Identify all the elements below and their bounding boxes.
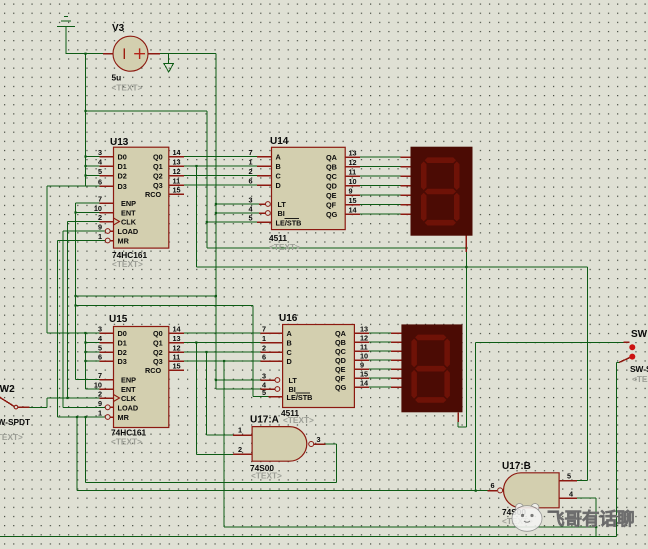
svg-text:10: 10 [94,204,102,213]
svg-text:13: 13 [173,334,181,343]
svg-text:6: 6 [262,353,266,362]
svg-text:D2: D2 [118,348,127,357]
svg-text:LT: LT [289,376,298,385]
svg-text:2: 2 [238,445,242,454]
svg-text:3: 3 [262,372,266,381]
wire vertical x=75.5 [75,203,77,380]
wire display1 common vertical [458,252,466,427]
svg-text:Q3: Q3 [153,357,163,366]
svg-text:2: 2 [262,344,266,353]
svg-text:QD: QD [335,356,346,365]
svg-text:10: 10 [94,381,102,390]
svg-text:Q1: Q1 [153,339,163,348]
svg-text:QE: QE [326,191,337,200]
svg-text:QA: QA [335,329,347,338]
U17A pin numbers [238,426,321,454]
ground [57,17,75,55]
wire SW throw stub [616,362,619,364]
svg-text:14: 14 [173,148,182,157]
svg-text:2: 2 [98,213,102,222]
wire U13.D3 [47,185,100,187]
wire vertical x=587.5 to U17B.5 [587,267,589,481]
wire U13.D1 [86,165,100,167]
svg-text:9: 9 [349,187,353,196]
wires U15.Q to U16 [184,333,261,361]
svg-text:SW: SW [631,329,648,340]
wire U13.ENT [76,212,100,214]
svg-text:V3: V3 [112,23,125,34]
wire U16.LE [253,396,268,398]
svg-text:<TEXT>: <TEXT> [632,374,648,384]
U16 right pin stubs [354,333,369,387]
wire U14.BI to VCC [216,212,259,214]
U17A input stubs [233,435,252,454]
wires U14 to display1 [360,157,400,214]
svg-text:U13: U13 [110,137,129,148]
svg-text:U15: U15 [109,314,128,325]
svg-text:7: 7 [98,195,102,204]
wire V3 right [160,53,216,55]
U14 pin numbers [248,148,357,223]
wire vertical x=253.2 [252,306,254,397]
U16 pin numbers [262,325,369,398]
svg-text:9: 9 [98,399,102,408]
svg-text:LOAD: LOAD [118,227,139,236]
wire U13.Q3 to U14.D [184,184,257,186]
U13 left pin stubs [100,157,114,241]
svg-text:CLK: CLK [121,218,137,227]
wire U14.LT to VCC [216,203,259,205]
wire U17B output [77,490,488,492]
svg-text:LE/STB: LE/STB [287,393,313,402]
svg-text:LE/STB: LE/STB [276,219,302,228]
svg-text:B: B [287,339,292,348]
svg-text:3: 3 [317,435,321,444]
U16 overline STB [296,392,311,394]
svg-text:D1: D1 [118,339,127,348]
wire U15.D1 [85,342,99,344]
svg-text:QA: QA [326,153,338,162]
svg-text:15: 15 [173,362,181,371]
svg-text:Q2: Q2 [153,348,163,357]
SW right throw diagonal [619,358,630,363]
svg-text:D: D [276,181,281,190]
svg-text:A: A [276,153,282,162]
svg-text:QB: QB [326,163,337,172]
svg-text:7: 7 [262,325,266,334]
wire H1 ENP to VCC [76,295,216,297]
svg-text:RCO: RCO [145,190,162,199]
svg-text:1: 1 [98,409,102,418]
svg-text:13: 13 [360,325,368,334]
svg-text:QC: QC [326,172,338,181]
svg-text:3: 3 [98,325,102,334]
U16 BI bubble [275,387,280,392]
svg-text:U17:B: U17:B [502,461,531,472]
svg-text:QC: QC [335,347,347,356]
wire SW2 to CLK [30,398,100,407]
U13 body [114,147,169,248]
wire H4 [197,266,588,268]
U14 BI bubble [266,211,271,216]
svg-text:Q0: Q0 [153,153,163,162]
wire U13.LOAD [63,230,105,232]
svg-text:5: 5 [98,167,102,176]
svg-text:9: 9 [360,361,364,370]
svg-text:D3: D3 [118,357,127,366]
wires U16 to display2 [369,333,391,387]
svg-text:QG: QG [335,383,347,392]
U15 MR bubble [105,415,110,420]
wire U17B input5 [577,480,587,482]
SW right contacts [629,344,635,350]
svg-text:14: 14 [360,379,369,388]
svg-text:2: 2 [98,390,102,399]
display2 common stub [457,412,459,422]
svg-text:14: 14 [173,325,182,334]
wire vertical x=616.4 SW throw [615,363,617,537]
svg-text:ENT: ENT [121,209,136,218]
wire vertical x=67.5 CLK net [67,222,69,399]
svg-text:12: 12 [349,158,357,167]
svg-text:B: B [276,162,281,171]
svg-text:<TEXT>: <TEXT> [251,471,282,481]
U14 body [272,147,346,229]
wire U17A input2 [196,453,233,455]
display2 [401,324,462,412]
wire U13.Q0 to U14.A [184,156,257,158]
svg-text:<TEXT>: <TEXT> [112,83,143,93]
svg-text:15: 15 [349,196,357,205]
wire vertical x=596.2 U17B.4 [595,498,597,537]
wire H3 display1 common to GND [207,247,467,249]
U13 MR bubble [105,238,110,243]
wire vertical x=47 [46,186,48,333]
svg-text:12: 12 [173,344,181,353]
display1 pin stubs [400,157,410,214]
svg-text:6: 6 [490,481,494,490]
wire U14.LE to GND rail [207,221,257,223]
wire U15.ENT [85,388,99,390]
U17B output stub [488,490,497,492]
U13 CLK arrow [114,218,120,225]
svg-text:C: C [287,348,293,357]
V3 terminals [103,53,160,55]
U17:A NAND gate [252,427,314,462]
svg-text:D2: D2 [118,172,127,181]
U15 left pin stubs [100,333,114,417]
svg-text:<TEXT>: <TEXT> [112,259,143,269]
svg-text:10: 10 [349,177,357,186]
U17:B NAND gate (mirrored) [498,473,559,508]
svg-text:CLK: CLK [121,394,137,403]
wire vertical x=85.4 lower [84,333,86,389]
wire U17A input1 [207,434,233,436]
wire vertical x=206.5 Q2 to U17A.1 [206,352,208,435]
wire U13.ENP [76,202,100,204]
wire U15.D3 [85,360,99,362]
wire U13.MR [58,240,106,242]
wire U15.D0 [47,332,100,334]
U14 pin labels [276,153,338,228]
U15 LOAD bubble [105,405,110,410]
svg-text:MR: MR [118,413,130,422]
svg-text:ENP: ENP [121,199,136,208]
U15 body [114,327,169,428]
svg-text:C: C [276,172,282,181]
svg-text:12: 12 [360,334,368,343]
svg-text:1: 1 [238,426,242,435]
U15 right pin stubs [169,333,184,370]
svg-text:LOAD: LOAD [118,403,139,412]
svg-text:<TEXT>: <TEXT> [283,415,314,425]
svg-text:U14: U14 [270,136,289,147]
svg-text:5: 5 [567,472,571,481]
svg-text:ENT: ENT [121,385,136,394]
svg-text:3: 3 [98,148,102,157]
wire U13.Q1 to U14.B [184,165,257,167]
wire U13.CLK [68,221,100,223]
svg-text:3: 3 [248,196,252,205]
svg-text:1: 1 [262,334,266,343]
svg-text:Q0: Q0 [153,329,163,338]
svg-text:D0: D0 [118,153,127,162]
wire U17A output return [86,444,337,482]
SW2 pivot [14,405,18,409]
svg-text:QE: QE [335,365,346,374]
svg-text:D3: D3 [118,182,127,191]
svg-text:<TEXT>: <TEXT> [269,242,300,252]
U14 left pin stubs [257,157,272,223]
svg-text:U17:A: U17:A [250,415,279,426]
U17B pin numbers [490,472,574,499]
wire net VCC vertical x=215.9 [215,54,217,389]
svg-text:飞哥有话聊: 飞哥有话聊 [547,509,635,529]
wire U13.D2 [86,175,100,177]
U14 overline STB [285,218,300,220]
wire GND vertical x=206.8 [206,111,208,248]
svg-text:7: 7 [98,371,102,380]
svg-text:SW2: SW2 [0,384,15,395]
wire U16.BI to VCC [216,388,261,390]
watermark logo [512,504,542,532]
svg-text:A: A [287,329,293,338]
wire vertical x=57.5 MR net [57,241,59,418]
wire vertical x=196.3 Q1 to U17A.2 [195,343,197,455]
wire V3 left to ground [66,53,103,55]
wire U15.D2 [85,351,99,353]
svg-text:5: 5 [262,388,266,397]
svg-text:15: 15 [360,370,368,379]
wire vertical x=224.1 Q3 branch [223,361,225,527]
svg-text:SW-SPDT: SW-SPDT [630,364,648,374]
wire U15.MR [58,416,106,418]
svg-text:ENP: ENP [121,376,136,385]
svg-text:SW-SPDT: SW-SPDT [0,417,30,427]
U17A output stub [314,443,326,445]
svg-text:11: 11 [349,168,357,177]
U14 right pin stubs [345,157,360,214]
svg-text:1: 1 [248,158,252,167]
U14 LT bubble [266,202,271,207]
svg-text:6: 6 [248,177,252,186]
wire SW pole from U17B out [476,341,624,343]
svg-text:5u: 5u [112,73,122,83]
svg-text:5: 5 [98,344,102,353]
wire U16.LT to VCC [216,379,261,381]
svg-text:Q2: Q2 [153,172,163,181]
svg-text:Q1: Q1 [153,162,163,171]
svg-text:MR: MR [118,237,130,246]
svg-text:11: 11 [173,353,181,362]
svg-text:QF: QF [335,374,346,383]
wire GND vertical x=85.5 top [85,54,87,186]
wire H2 to U16.LE [76,305,254,307]
svg-text:BI: BI [278,209,285,218]
svg-text:QB: QB [335,338,346,347]
wire vertical x=77 MR to bottom [76,417,78,491]
V3 source [113,36,148,71]
svg-text:13: 13 [173,158,181,167]
wire U13.D0 [86,156,100,158]
svg-text:14: 14 [349,206,358,215]
svg-text:11: 11 [173,177,181,186]
svg-text:Q3: Q3 [153,181,163,190]
svg-text:12: 12 [173,167,181,176]
U13 right pin stubs [169,157,184,195]
U16 LT bubble [275,378,280,383]
U16 pin labels [287,329,347,402]
U13 pin numbers [94,148,182,241]
wire y=527 horizontal [224,526,596,528]
svg-text:1: 1 [98,232,102,241]
svg-text:D: D [287,357,292,366]
svg-text:7: 7 [248,148,252,157]
U16 left pin stubs [261,333,283,397]
wire vertical x=63 LOAD net [62,231,64,407]
wire vertical x=475.7 [475,342,477,490]
U15 pin numbers [94,325,182,418]
U16 body [283,325,355,408]
wire vertical x=196.5 Q1 branch [196,166,198,267]
svg-text:D1: D1 [118,162,127,171]
ground arrow [164,54,174,72]
SW2 pole and throw [0,396,30,407]
wire GND horizontal y=111 [86,110,207,112]
svg-text:U16: U16 [279,313,298,324]
svg-text:<TEXT>: <TEXT> [111,437,142,447]
svg-text:RCO: RCO [145,366,162,375]
svg-text:6: 6 [98,353,102,362]
svg-text:QG: QG [326,210,338,219]
svg-text:D0: D0 [118,329,127,338]
svg-text:LT: LT [278,200,287,209]
svg-text:10: 10 [360,352,368,361]
U17B input stubs [559,481,577,499]
display2 pin stubs [391,333,401,387]
display1 [411,147,473,236]
U15 pin labels [118,329,163,422]
svg-text:2: 2 [248,167,252,176]
wire vertical x=85.6 MR to U17A out [85,417,87,482]
wire U13.Q2 to U14.C [184,175,257,177]
svg-text:15: 15 [173,186,181,195]
svg-text:QD: QD [326,182,337,191]
svg-text:11: 11 [360,343,368,352]
display1 common stub [465,236,467,252]
svg-text:9: 9 [98,223,102,232]
wire U15.LOAD [63,406,105,408]
svg-text:13: 13 [349,149,357,158]
wire bottom y=536.7 [0,536,616,538]
U13 pin labels [118,153,163,246]
U15 CLK arrow [114,395,120,402]
svg-text:6: 6 [98,178,102,187]
svg-text:5: 5 [248,214,252,223]
U13 LOAD bubble [105,229,110,234]
svg-text:QF: QF [326,201,337,210]
svg-text:<TEXT>: <TEXT> [0,432,23,442]
wire U17B input4 [577,497,596,499]
wire U15.ENP [76,379,100,381]
SW right pole tip [624,341,630,343]
